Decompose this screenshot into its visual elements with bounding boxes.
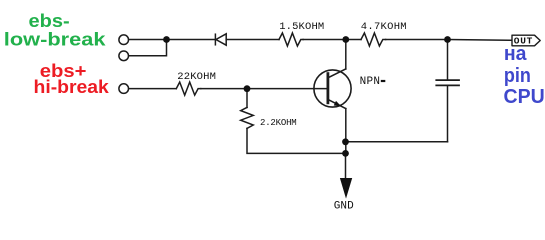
connector pad J1 (ebs- top) — [119, 35, 129, 45]
wire diode to R1 — [226, 39, 279, 41]
wire ground node down to GND symbol — [345, 153, 347, 178]
wire capacitor branch to emitter node — [346, 141, 448, 143]
junction dot emitter-capacitor node — [342, 138, 349, 145]
svg-text:hi-break: hi-break — [34, 77, 110, 97]
svg-text:GND: GND — [334, 201, 354, 213]
junction dot base node — [244, 85, 251, 92]
capacitor C1 bottom plate — [436, 84, 459, 86]
wire R1 to collector node — [303, 39, 346, 41]
svg-text:на: на — [504, 43, 527, 65]
junction dot collector node — [342, 36, 349, 43]
wire capacitor branch from top rail — [447, 40, 449, 81]
resistor R2 4.7KOHM zigzag — [361, 33, 386, 46]
svg-text:low-break: low-break — [4, 29, 107, 49]
wire base node down to R4 — [246, 89, 248, 108]
resistor R1 1.5KOHM zigzag — [279, 33, 303, 46]
connector pad J2 (ebs- bottom) — [119, 51, 129, 61]
transistor Q1 emitter slant — [328, 99, 346, 108]
wire capacitor node to OUT port — [448, 39, 513, 42]
svg-text:pin: pin — [504, 65, 531, 87]
wire middle rail: pad J3 to R3 — [129, 88, 177, 90]
wire top rail: pad J1 to diode — [129, 39, 215, 41]
transistor Q1 emitter arrow — [334, 101, 342, 107]
diode D1 triangle — [216, 34, 226, 45]
wire collector vertical up to top rail — [345, 40, 347, 69]
ground symbol arrow — [340, 178, 352, 199]
port symbol OUT outline — [512, 35, 540, 46]
wire pad J2 up to junction — [129, 40, 167, 56]
wire collector node to R2 — [346, 39, 361, 41]
junction dot lower rail node — [342, 150, 349, 157]
transistor Q1 collector slant — [328, 69, 346, 78]
svg-text:2.2KOHM: 2.2KOHM — [260, 118, 297, 128]
transistor Q1 base bar — [326, 74, 329, 103]
resistor R3 22KOHM zigzag — [176, 82, 201, 95]
wire capacitor bottom down — [447, 85, 449, 141]
transistor Q1 circle — [314, 70, 351, 107]
wire emitter vertical down to ground node — [345, 109, 347, 154]
wire base node to transistor base — [247, 88, 328, 90]
capacitor C1 top plate — [436, 79, 459, 81]
svg-text:4.7KOHM: 4.7KOHM — [361, 21, 407, 33]
svg-text:CPU: CPU — [504, 86, 545, 108]
svg-text:22KOHM: 22KOHM — [177, 71, 216, 83]
transistor label dash after NPN — [381, 80, 386, 82]
svg-text:NPN: NPN — [360, 76, 380, 88]
wire R4 bottom to lower rail — [247, 128, 346, 153]
svg-text:1.5KOHM: 1.5KOHM — [279, 21, 324, 33]
resistor R4 2.2KOHM vertical zigzag — [241, 107, 254, 128]
wire R3 to base node — [201, 88, 247, 90]
junction dot capacitor node — [444, 36, 451, 43]
wire R2 to capacitor node — [386, 39, 448, 41]
diode D1 cathode bar — [214, 34, 216, 45]
junction dot node A (pads join) — [163, 36, 170, 43]
connector pad J3 (ebs+) — [119, 84, 129, 94]
svg-text:ebs-: ebs- — [29, 11, 70, 31]
